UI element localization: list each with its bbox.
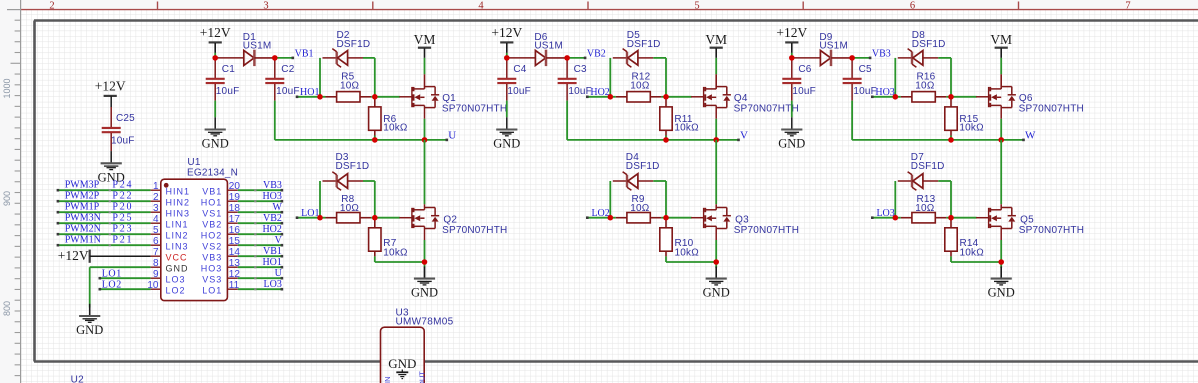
svg-text:Q6: Q6	[1019, 93, 1033, 104]
svg-text:10uF: 10uF	[111, 135, 135, 146]
wire	[374, 58, 376, 97]
svg-text:HO1: HO1	[300, 87, 319, 98]
node (rail)	[948, 137, 954, 143]
U1 pin 20 (VB1)	[227, 189, 237, 191]
svg-text:VM: VM	[414, 32, 436, 47]
net label VB3	[852, 57, 870, 59]
wire (gate)	[666, 217, 692, 219]
wire (gate)	[375, 96, 400, 98]
svg-text:U: U	[448, 130, 456, 142]
wire	[374, 181, 376, 218]
svg-text:10kΩ: 10kΩ	[959, 123, 984, 134]
wire	[506, 101, 508, 118]
wire	[363, 57, 375, 59]
svg-text:LO2: LO2	[102, 279, 122, 290]
wire	[609, 58, 611, 97]
node (gate)	[317, 94, 323, 100]
svg-text:C5: C5	[859, 64, 872, 75]
wire	[363, 180, 375, 182]
node (rail)	[372, 137, 378, 143]
U1 pin 10 (LO2)	[151, 288, 161, 290]
wire	[274, 101, 276, 140]
svg-text:SP70N07HTH: SP70N07HTH	[442, 225, 507, 236]
wire (gate)	[951, 217, 977, 219]
svg-text:P24: P24	[112, 180, 133, 191]
svg-text:10kΩ: 10kΩ	[960, 247, 985, 258]
net label LO3 (gate)	[872, 217, 895, 219]
svg-text:GND: GND	[988, 286, 1015, 300]
svg-text:Q1: Q1	[442, 93, 456, 104]
wire + net label HO1 (U1 right)	[238, 266, 282, 268]
svg-text:GND: GND	[778, 137, 805, 151]
svg-text:10uF: 10uF	[216, 86, 240, 97]
wire + net label PWM2P P22	[58, 200, 151, 202]
svg-text:VB2: VB2	[587, 48, 606, 59]
net label HO1	[297, 96, 320, 98]
wire + net label U (U1 right)	[238, 277, 282, 279]
svg-text:10kΩ: 10kΩ	[383, 123, 408, 134]
wire	[566, 101, 568, 140]
svg-text:+12V: +12V	[491, 25, 522, 40]
wire	[374, 136, 376, 140]
svg-text:10Ω: 10Ω	[630, 80, 650, 91]
U1 pin 1 (HIN1)	[151, 189, 161, 191]
svg-text:LO1: LO1	[301, 208, 319, 219]
capacitor C2	[274, 58, 276, 78]
wire	[319, 181, 321, 218]
node (VB)	[272, 55, 278, 61]
svg-text:U2: U2	[71, 375, 85, 383]
svg-text:DSF1D: DSF1D	[336, 161, 370, 172]
svg-text:800: 800	[2, 301, 12, 316]
svg-text:5: 5	[153, 225, 159, 236]
wire (drain to rail)	[715, 140, 717, 204]
node (gate)	[893, 94, 899, 100]
svg-text:+12V: +12V	[95, 79, 126, 94]
svg-text:HO2: HO2	[201, 231, 223, 241]
wire + net label VB1 (U1 right)	[238, 255, 282, 257]
wire	[950, 256, 952, 262]
wire (gate)	[375, 217, 400, 219]
wire + net label PWM1N P21	[58, 244, 151, 246]
svg-text:LIN1: LIN1	[166, 220, 189, 230]
svg-text:900: 900	[2, 191, 12, 206]
U1 pin 12 (VS3)	[227, 277, 237, 279]
wire	[894, 58, 896, 97]
node (VB)	[849, 55, 855, 61]
svg-text:DSF1D: DSF1D	[627, 39, 661, 50]
svg-text:2: 2	[153, 192, 159, 203]
svg-text:U1: U1	[187, 157, 201, 168]
wire (source to ground)	[1000, 226, 1002, 240]
wire + net label PWM3N P25	[58, 222, 151, 224]
svg-text:HIN1: HIN1	[166, 187, 191, 197]
svg-text:GND: GND	[388, 356, 416, 371]
wire (drain to rail)	[1000, 140, 1002, 204]
svg-text:US1M: US1M	[534, 41, 563, 52]
wire + net label LO2 (U1 left)	[100, 288, 151, 290]
node (VB)	[564, 55, 570, 61]
svg-text:P22: P22	[112, 191, 133, 202]
wire + net label LO1 (U1 left)	[100, 277, 151, 279]
svg-text:P21: P21	[112, 235, 133, 246]
svg-text:Q3: Q3	[735, 214, 749, 225]
node (source)	[998, 259, 1004, 265]
svg-text:10kΩ: 10kΩ	[383, 247, 408, 258]
svg-text:VM: VM	[705, 32, 727, 47]
wire (source to ground)	[424, 226, 426, 240]
svg-text:GND: GND	[493, 137, 520, 151]
sheet row ruler (left, gray)	[20, 0, 22, 383]
svg-text:1000: 1000	[2, 78, 12, 98]
svg-text:HO3: HO3	[201, 264, 223, 274]
wire + net label PWM2N P23	[58, 233, 151, 235]
ground (C6)	[791, 117, 793, 129]
svg-text:SP70N07HTH: SP70N07HTH	[442, 104, 507, 115]
wire	[319, 58, 321, 97]
svg-text:10Ω: 10Ω	[915, 80, 935, 91]
svg-text:+12V: +12V	[200, 25, 231, 40]
wire	[851, 101, 853, 140]
wire	[653, 57, 666, 59]
wire (source)	[715, 105, 717, 118]
svg-text:10uF: 10uF	[507, 86, 531, 97]
svg-text:W: W	[1025, 130, 1036, 142]
capacitor C1	[214, 58, 216, 78]
wire	[791, 101, 793, 118]
svg-text:10kΩ: 10kΩ	[674, 123, 699, 134]
svg-text:SP70N07HTH: SP70N07HTH	[1019, 104, 1084, 115]
svg-text:VB2: VB2	[202, 220, 222, 230]
svg-text:HIN2: HIN2	[166, 198, 191, 208]
net label VB2	[567, 57, 585, 59]
svg-text:HO1: HO1	[201, 198, 223, 208]
capacitor C5	[851, 58, 853, 78]
wire	[950, 181, 952, 218]
svg-text:US1M: US1M	[819, 41, 848, 52]
svg-text:P20: P20	[112, 202, 133, 213]
svg-text:VM: VM	[990, 32, 1012, 47]
svg-text:3: 3	[263, 1, 268, 12]
svg-text:LIN3: LIN3	[166, 242, 189, 252]
svg-text:DSF1D: DSF1D	[337, 39, 371, 50]
svg-text:V: V	[740, 130, 748, 142]
svg-text:HO2: HO2	[262, 224, 281, 235]
wire + net label LO3 (U1 right)	[238, 288, 282, 290]
svg-text:10uF: 10uF	[792, 86, 816, 97]
svg-text:10kΩ: 10kΩ	[675, 247, 700, 258]
svg-text:HO3: HO3	[875, 87, 894, 98]
wire	[950, 58, 952, 97]
svg-text:C4: C4	[513, 64, 526, 75]
svg-text:7: 7	[153, 247, 159, 258]
svg-text:PWM3N: PWM3N	[65, 213, 101, 224]
svg-text:VB3: VB3	[872, 48, 891, 59]
ground (C25)	[110, 151, 112, 163]
svg-text:DSF1D: DSF1D	[911, 161, 945, 172]
U1 pin 4 (LIN1)	[151, 222, 161, 224]
node (source)	[713, 259, 719, 265]
svg-text:Q5: Q5	[1020, 214, 1034, 225]
svg-text:LO1: LO1	[102, 268, 122, 279]
wire (gate)	[951, 96, 977, 98]
svg-text:P25: P25	[112, 213, 133, 224]
svg-text:VB2: VB2	[263, 213, 282, 224]
wire	[938, 180, 951, 182]
svg-text:4: 4	[153, 214, 159, 225]
svg-text:C1: C1	[222, 64, 235, 75]
wire	[665, 256, 667, 262]
svg-text:C25: C25	[116, 113, 135, 124]
ground (Q5 source)	[1000, 268, 1002, 279]
ground (Q2 source)	[424, 268, 426, 279]
U1 pin 8 (GND)	[151, 266, 161, 268]
svg-text:C2: C2	[281, 64, 294, 75]
U1 pin 7 (VCC)	[151, 255, 161, 257]
svg-text:GND: GND	[411, 286, 438, 300]
svg-text:VIN: VIN	[383, 376, 392, 383]
node (rail)	[663, 137, 669, 143]
svg-text:+12V: +12V	[776, 25, 807, 40]
svg-text:9: 9	[153, 269, 159, 280]
svg-text:GND: GND	[76, 323, 103, 337]
node (gate)	[608, 94, 614, 100]
sheet column ruler (top, red)	[21, 9, 1198, 11]
node (bootstrap input)	[212, 55, 218, 61]
svg-text:6: 6	[153, 236, 159, 247]
wire	[214, 101, 216, 118]
wire (source to ground)	[715, 226, 717, 240]
svg-text:10Ω: 10Ω	[340, 80, 360, 91]
svg-text:VS3: VS3	[202, 275, 222, 285]
svg-text:PWM2P: PWM2P	[65, 191, 100, 202]
svg-text:1: 1	[153, 181, 159, 192]
svg-text:SP70N07HTH: SP70N07HTH	[734, 104, 799, 115]
wire (source)	[424, 105, 426, 118]
node (gate low)	[608, 215, 614, 221]
svg-text:HO2: HO2	[590, 87, 609, 98]
svg-text:GND: GND	[166, 264, 189, 274]
svg-text:EG2134_N: EG2134_N	[187, 168, 238, 179]
wire	[653, 180, 666, 182]
svg-text:HO1: HO1	[262, 257, 281, 268]
wire + net label W (U1 right)	[238, 211, 282, 213]
ground (C1)	[214, 117, 216, 129]
wire	[950, 136, 952, 140]
svg-text:LIN2: LIN2	[166, 231, 189, 241]
svg-text:SP70N07HTH: SP70N07HTH	[734, 225, 799, 236]
svg-text:7: 7	[1125, 1, 1130, 12]
svg-text:SP70N07HTH: SP70N07HTH	[1019, 225, 1084, 236]
U1 pin 6 (LIN3)	[151, 244, 161, 246]
svg-text:6: 6	[910, 1, 915, 12]
wire	[938, 57, 951, 59]
net label LO1 (gate)	[297, 217, 320, 219]
svg-text:4: 4	[478, 1, 484, 12]
node (source)	[422, 259, 428, 265]
svg-text:VB1: VB1	[202, 187, 222, 197]
U1 pin 3 (HIN3)	[151, 211, 161, 213]
U1 pin 18 (VS1)	[227, 211, 237, 213]
capacitor C3	[566, 58, 568, 78]
svg-text:Q2: Q2	[443, 214, 457, 225]
wire + net label VB3 (U1 right)	[238, 189, 282, 191]
wire (source)	[1000, 105, 1002, 118]
node (gate low)	[893, 215, 899, 221]
svg-text:5: 5	[694, 1, 699, 12]
svg-text:8: 8	[153, 258, 159, 269]
svg-text:VOUT: VOUT	[418, 371, 427, 383]
node (bootstrap input)	[504, 55, 510, 61]
svg-text:+12V: +12V	[58, 248, 89, 263]
svg-text:P23: P23	[112, 224, 133, 235]
wire (gate)	[666, 96, 692, 98]
svg-text:C3: C3	[574, 64, 587, 75]
svg-text:LO2: LO2	[166, 286, 186, 296]
node (bootstrap input)	[789, 55, 795, 61]
svg-text:GND: GND	[202, 137, 229, 151]
wire	[665, 181, 667, 218]
svg-text:LO1: LO1	[202, 286, 222, 296]
capacitor C4	[506, 58, 508, 78]
svg-text:PWM1N: PWM1N	[65, 235, 101, 246]
U1 pin 16 (HO2)	[227, 233, 237, 235]
U1 pin 11 (LO1)	[227, 288, 237, 290]
svg-text:VB3: VB3	[263, 180, 282, 191]
net label HO2	[587, 96, 610, 98]
svg-text:U: U	[275, 268, 283, 279]
svg-text:LO3: LO3	[876, 208, 894, 219]
net label HO3	[872, 96, 895, 98]
wire	[894, 181, 896, 218]
ground (C4)	[506, 117, 508, 129]
ground (U1 pin 8)	[89, 308, 91, 317]
wire (phase rail V)	[567, 139, 738, 141]
svg-text:C6: C6	[798, 64, 811, 75]
capacitor C25	[110, 107, 112, 127]
svg-text:3: 3	[153, 203, 159, 214]
wire	[665, 136, 667, 140]
wire + net label VB2 (U1 right)	[238, 222, 282, 224]
wire (drain to rail)	[424, 140, 426, 204]
svg-text:UMW78M05: UMW78M05	[396, 317, 454, 328]
svg-text:HIN3: HIN3	[166, 209, 191, 219]
wire + net label V (U1 right)	[238, 244, 282, 246]
wire (phase rail U)	[275, 139, 447, 141]
U1 pin 19 (HO1)	[227, 200, 237, 202]
U1 pin 5 (LIN2)	[151, 233, 161, 235]
svg-text:PWM1P: PWM1P	[65, 202, 100, 213]
U1 pin 9 (LO3)	[151, 277, 161, 279]
wire + net label PWM1P P20	[58, 211, 151, 213]
svg-text:GND: GND	[703, 286, 730, 300]
svg-text:LO2: LO2	[591, 208, 609, 219]
U1 pin 13 (HO3)	[227, 266, 237, 268]
wire	[609, 181, 611, 218]
svg-text:V: V	[275, 235, 283, 246]
svg-text:2: 2	[49, 1, 54, 12]
wire (phase rail W)	[852, 139, 1023, 141]
svg-text:PWM3P: PWM3P	[65, 180, 100, 191]
wire (pin 8 to ground)	[90, 266, 151, 268]
svg-text:DSF1D: DSF1D	[912, 39, 946, 50]
wire + net label HO3 (U1 right)	[238, 200, 282, 202]
net label VB1	[275, 57, 293, 59]
svg-text:Q4: Q4	[734, 93, 748, 104]
svg-text:PWM2N: PWM2N	[65, 224, 101, 235]
svg-text:HO3: HO3	[262, 191, 281, 202]
U1 pin 2 (HIN2)	[151, 200, 161, 202]
svg-text:VS2: VS2	[202, 242, 222, 252]
svg-text:DSF1D: DSF1D	[626, 161, 660, 172]
ground (Q3 source)	[715, 268, 717, 279]
svg-text:W: W	[272, 202, 282, 213]
capacitor C6	[791, 58, 793, 78]
wire	[374, 256, 376, 262]
svg-text:VB3: VB3	[202, 253, 222, 263]
svg-text:LO3: LO3	[264, 279, 282, 290]
svg-text:VCC: VCC	[166, 253, 188, 263]
U1 pin 15 (VS2)	[227, 244, 237, 246]
wire + net label HO2 (U1 right)	[238, 233, 282, 235]
node (gate low)	[317, 215, 323, 221]
svg-text:LO3: LO3	[166, 275, 186, 285]
net label LO2 (gate)	[587, 217, 610, 219]
U1 pin 17 (VB2)	[227, 222, 237, 224]
svg-text:VB1: VB1	[263, 246, 282, 257]
svg-text:VB1: VB1	[295, 48, 314, 59]
U1 pin 14 (VB3)	[227, 255, 237, 257]
wire + net label PWM3P P24	[58, 189, 151, 191]
svg-text:US1M: US1M	[243, 41, 272, 52]
wire	[665, 58, 667, 97]
svg-text:VS1: VS1	[202, 209, 222, 219]
